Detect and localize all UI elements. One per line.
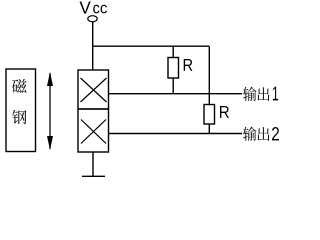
wire Vcc vertical: [92, 22, 94, 70]
label R1: [184, 59, 193, 71]
label R2: [220, 106, 229, 118]
label 输出1 : 1: [273, 87, 278, 101]
Vcc terminal circle: [88, 16, 97, 22]
label 输出2 : 输: [243, 127, 256, 141]
label 输出1 : 出: [257, 87, 269, 101]
wire top horizontal: [93, 45, 210, 47]
X mark lower hall element: [81, 120, 106, 144]
wire R2 bottom lead: [208, 124, 210, 134]
wire R1 bottom lead: [172, 78, 174, 94]
hall element box upper: [78, 70, 109, 109]
label 输出1 : 输: [243, 87, 256, 101]
label 磁: [12, 79, 27, 93]
resistor R2 body: [204, 105, 215, 125]
wire ground stub: [92, 152, 94, 176]
label 钢: [12, 110, 27, 124]
wire output 2: [109, 133, 243, 135]
wire R1 top lead: [172, 46, 174, 57]
X mark upper hall element: [81, 78, 107, 102]
label Vcc : V: [79, 1, 90, 13]
motion arrow head up: [47, 72, 53, 86]
hall element box lower: [78, 109, 109, 152]
wire output 1: [109, 93, 243, 95]
magnet box: [6, 69, 36, 152]
motion arrow head down: [47, 136, 53, 150]
label Vcc : c: [93, 5, 99, 14]
label 输出2 : 2: [272, 127, 279, 140]
motion arrow shaft: [49, 73, 51, 149]
label 输出2 : 出: [257, 127, 269, 141]
ground: [82, 175, 105, 177]
resistor R1 body: [168, 58, 179, 79]
wire trunk to R2: [208, 46, 210, 104]
label Vcc : c: [101, 5, 107, 14]
